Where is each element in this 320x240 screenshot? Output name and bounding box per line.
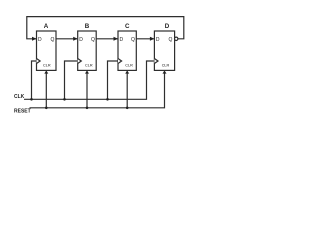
svg-text:D: D	[79, 37, 83, 43]
svg-text:Q: Q	[131, 37, 135, 43]
svg-text:Q: Q	[169, 37, 173, 43]
svg-text:CLR: CLR	[162, 63, 170, 67]
svg-text:CLR: CLR	[85, 63, 93, 67]
svg-text:B: B	[85, 23, 90, 30]
svg-text:D: D	[165, 23, 170, 30]
svg-text:CLK: CLK	[14, 94, 25, 100]
svg-text:D: D	[38, 37, 42, 43]
svg-text:Q: Q	[51, 37, 55, 43]
svg-text:CLR: CLR	[125, 63, 133, 67]
svg-text:D: D	[156, 37, 160, 43]
svg-text:RESET: RESET	[14, 109, 31, 115]
svg-text:C: C	[125, 23, 130, 30]
svg-text:CLR: CLR	[43, 63, 51, 67]
svg-text:A: A	[44, 23, 49, 30]
svg-text:D: D	[120, 37, 124, 43]
svg-text:Q: Q	[91, 37, 95, 43]
